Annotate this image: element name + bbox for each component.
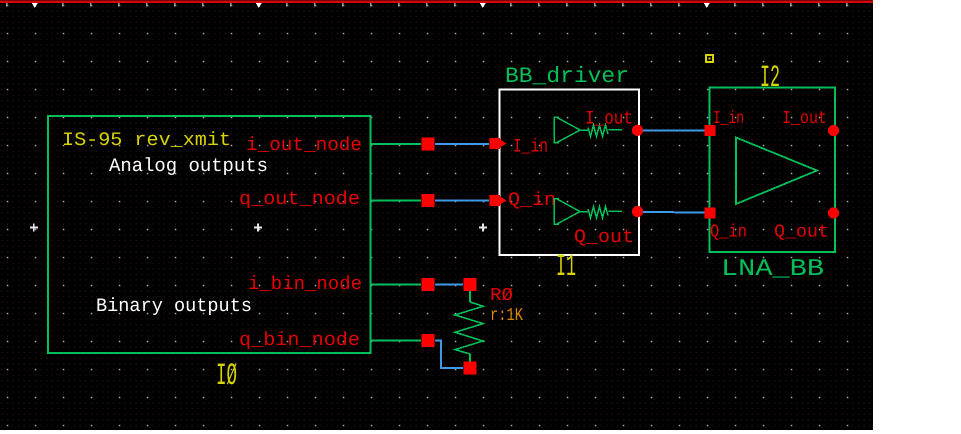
svg-text:RØ: RØ <box>490 286 513 306</box>
svg-text:Analog outputs: Analog outputs <box>109 155 268 177</box>
svg-text:r:1K: r:1K <box>490 306 523 326</box>
svg-text:i_bin_node: i_bin_node <box>248 273 362 295</box>
svg-text:I_out: I_out <box>782 109 827 129</box>
svg-text:I_in: I_in <box>713 109 744 129</box>
svg-text:Q_out: Q_out <box>774 223 829 243</box>
svg-text:IØ: IØ <box>216 359 237 394</box>
svg-text:i_out_node: i_out_node <box>246 134 362 156</box>
svg-text:IS-95 rev_xmit: IS-95 rev_xmit <box>62 129 231 151</box>
svg-text:LNA_BB: LNA_BB <box>721 256 824 283</box>
svg-text:q_out_node: q_out_node <box>239 188 360 210</box>
svg-text:I2: I2 <box>760 61 780 96</box>
svg-text:Binary outputs: Binary outputs <box>96 295 252 317</box>
svg-text:I1: I1 <box>556 250 576 285</box>
svg-text:I_in: I_in <box>513 136 548 158</box>
svg-text:I_out: I_out <box>585 108 633 130</box>
svg-text:Q_in: Q_in <box>710 223 747 243</box>
svg-text:q_bin_node: q_bin_node <box>239 329 360 351</box>
svg-text:Q_out: Q_out <box>574 226 634 248</box>
svg-text:BB_driver: BB_driver <box>505 64 629 89</box>
svg-text:Q_in: Q_in <box>508 189 556 211</box>
